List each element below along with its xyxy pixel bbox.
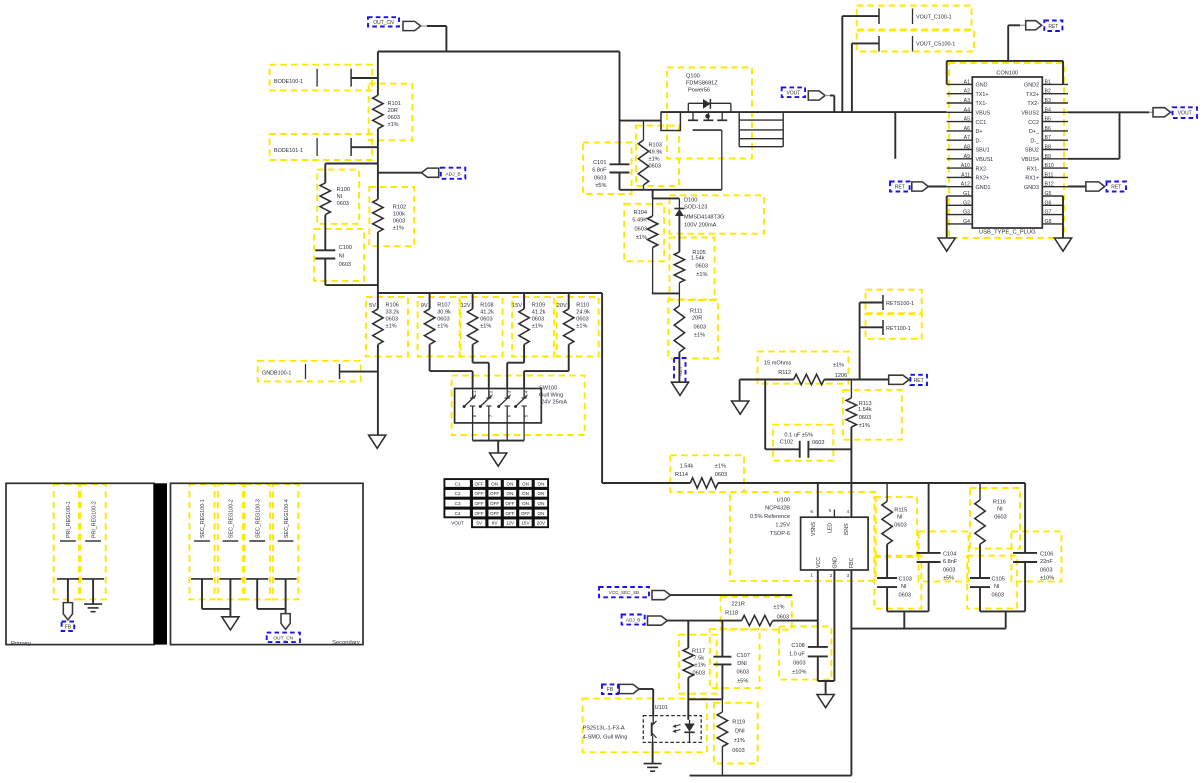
resistor R107 — [429, 293, 431, 309]
svg-text:0603: 0603 — [696, 264, 708, 270]
svg-text:R102: R102 — [393, 205, 406, 211]
svg-text:BODE101-1: BODE101-1 — [274, 148, 303, 154]
highlight box PRI_REG100-1 — [54, 484, 79, 599]
svg-text:C105: C105 — [992, 577, 1005, 583]
highlight box SEC_REG100-3 — [245, 484, 270, 599]
node label OUT_CN — [368, 17, 399, 26]
svg-text:ADJ_B: ADJ_B — [626, 618, 641, 623]
highlight box resistor R110 — [557, 297, 599, 357]
svg-text:0603: 0603 — [943, 568, 955, 574]
svg-text:0.5% Reference: 0.5% Reference — [750, 514, 790, 520]
svg-text:B8: B8 — [1045, 145, 1051, 151]
svg-text:B12: B12 — [1045, 182, 1054, 188]
highlight box resistor R107 — [418, 297, 460, 357]
svg-text:CON100: CON100 — [996, 71, 1018, 77]
svg-text:R110: R110 — [576, 303, 589, 309]
port OUT_CN — [403, 21, 421, 30]
resistor R106 — [377, 293, 379, 309]
highlight box resistor R101 — [369, 84, 413, 141]
node label VOUT mid — [782, 87, 805, 97]
svg-text:VBUS1: VBUS1 — [976, 157, 994, 163]
svg-text:ON: ON — [491, 481, 498, 486]
svg-text:±1%: ±1% — [833, 363, 844, 369]
wire ADJ branch to R117 — [687, 621, 689, 648]
ground GNDB — [369, 435, 386, 448]
svg-text:±1%: ±1% — [386, 324, 397, 330]
svg-text:DNI: DNI — [735, 729, 745, 735]
svg-text:ON: ON — [522, 481, 529, 486]
capacitor C107 — [713, 656, 731, 658]
svg-text:GND: GND — [833, 557, 839, 569]
svg-text:22nF: 22nF — [1040, 559, 1053, 565]
wire shield bracket top — [947, 60, 1063, 62]
wire R112 left to ground — [740, 379, 794, 381]
svg-text:0603: 0603 — [732, 748, 744, 754]
highlight box resistor R109 — [512, 297, 554, 357]
wire C101 bottom to gate node — [619, 173, 621, 190]
svg-text:0.1 uF ±5%: 0.1 uF ±5% — [784, 433, 813, 439]
node label RET mid — [910, 375, 927, 385]
svg-text:±1%: ±1% — [696, 272, 707, 278]
svg-text:ON: ON — [538, 501, 545, 506]
ground U100 — [817, 695, 834, 708]
svg-text:C3: C3 — [455, 501, 461, 506]
svg-text:±10%: ±10% — [1040, 576, 1054, 582]
svg-text:±1%: ±1% — [649, 157, 660, 163]
svg-text:RX1+: RX1+ — [1025, 176, 1039, 182]
svg-text:A3: A3 — [964, 98, 970, 104]
svg-text:R104: R104 — [634, 210, 647, 216]
svg-text:OFF: OFF — [475, 481, 484, 486]
ground CON100 left — [938, 238, 955, 251]
capacitor C102 — [764, 380, 766, 450]
wire R100 branch top — [325, 163, 378, 165]
wire gate node to R104/D100 — [652, 190, 654, 199]
port VOUT right — [1153, 108, 1171, 117]
svg-text:RET: RET — [1048, 24, 1058, 30]
svg-text:RET: RET — [678, 366, 683, 375]
svg-text:GND2: GND2 — [1024, 83, 1039, 89]
svg-text:VBUS: VBUS — [976, 111, 991, 117]
svg-text:Primary: Primary — [11, 641, 31, 647]
svg-text:A1: A1 — [964, 79, 970, 85]
wire top edge of OUT net — [378, 51, 620, 53]
wire left edge middle segment — [377, 129, 379, 200]
highlight box capacitor C102 — [773, 425, 834, 461]
transistor Q100 — [661, 112, 680, 130]
ground earth primary — [84, 603, 102, 605]
svg-text:9V: 9V — [421, 303, 428, 309]
wire VBUS tap to FET source — [620, 120, 662, 122]
svg-text:C4: C4 — [455, 511, 461, 516]
highlight box capacitor C107 — [710, 629, 760, 688]
svg-text:0603: 0603 — [386, 317, 398, 323]
svg-text:0603: 0603 — [899, 593, 911, 599]
svg-text:0603: 0603 — [812, 440, 824, 446]
svg-text:VCC: VCC — [816, 557, 822, 568]
diode D100 — [678, 198, 680, 208]
port ADJ bottom — [648, 616, 668, 625]
port ADJ — [378, 172, 422, 174]
svg-text:GNDB100-1: GNDB100-1 — [262, 371, 291, 377]
svg-text:C106: C106 — [1040, 552, 1053, 558]
resistor R111 — [678, 293, 680, 305]
svg-text:OFF: OFF — [475, 511, 484, 516]
svg-text:1.54k: 1.54k — [680, 464, 694, 470]
highlight box opto U101 — [583, 699, 707, 753]
svg-text:SEC_REG100-4: SEC_REG100-4 — [284, 499, 290, 538]
svg-text:0603: 0603 — [793, 661, 805, 667]
svg-text:6.8nF: 6.8nF — [943, 559, 958, 565]
svg-text:33.2k: 33.2k — [386, 310, 400, 316]
svg-text:VOUT_CS100-1: VOUT_CS100-1 — [916, 42, 955, 48]
svg-text:SBU1: SBU1 — [976, 148, 990, 154]
svg-text:B5: B5 — [1045, 117, 1051, 123]
svg-text:A2: A2 — [964, 89, 970, 95]
wire OUT_CN to top rail — [427, 25, 446, 27]
resistor R116 — [979, 483, 981, 500]
svg-text:1.0 uF: 1.0 uF — [789, 652, 805, 658]
wire FBC lower rail — [851, 628, 1005, 630]
wire B4 to VOUT port — [1068, 111, 1149, 113]
svg-text:0603: 0603 — [992, 593, 1004, 599]
port FB — [619, 684, 639, 693]
highlight box BODE100-1 — [270, 65, 373, 91]
svg-text:GND1: GND1 — [976, 185, 991, 191]
svg-text:12V: 12V — [461, 303, 471, 309]
svg-text:24V 25mA: 24V 25mA — [541, 400, 567, 406]
svg-text:PRI_REG100-2: PRI_REG100-2 — [91, 501, 97, 538]
svg-text:0603: 0603 — [393, 219, 405, 225]
svg-text:±1%: ±1% — [773, 605, 784, 611]
svg-text:U101: U101 — [655, 705, 668, 711]
svg-text:20R: 20R — [388, 108, 398, 114]
svg-text:±1%: ±1% — [480, 324, 491, 330]
highlight box SEC_REG100-2 — [218, 484, 243, 599]
port VOUT mid — [808, 91, 825, 100]
ground CON100 right — [1054, 238, 1071, 251]
svg-text:SW100: SW100 — [539, 386, 557, 392]
svg-text:D+_: D+_ — [1029, 129, 1040, 135]
transformer secondary box — [171, 483, 364, 644]
svg-text:OFF: OFF — [490, 491, 499, 496]
wire VBUS vertical at C101 — [619, 52, 621, 165]
svg-text:OFF: OFF — [475, 501, 484, 506]
resistor R102 — [373, 199, 383, 232]
node label RET top — [1044, 21, 1062, 32]
svg-text:1206: 1206 — [835, 373, 847, 379]
svg-text:15 mOhms: 15 mOhms — [764, 361, 792, 367]
wire opto emitter to earth — [652, 742, 654, 763]
svg-text:D+: D+ — [976, 129, 983, 135]
svg-text:TX1+: TX1+ — [976, 92, 989, 98]
svg-text:RETS100-1: RETS100-1 — [886, 301, 914, 307]
svg-text:NI: NI — [337, 194, 343, 200]
svg-text:SOD-123: SOD-123 — [684, 205, 707, 211]
svg-text:VOUT: VOUT — [786, 90, 800, 96]
svg-text:G2: G2 — [963, 200, 970, 206]
node label ADJ bottom — [622, 615, 645, 625]
svg-text:7.5k: 7.5k — [694, 656, 705, 662]
svg-text:R115: R115 — [894, 508, 907, 514]
capacitor C103 — [877, 577, 897, 579]
wire C100 branch bottom — [324, 259, 326, 286]
svg-text:FB: FB — [607, 687, 614, 693]
svg-text:0603: 0603 — [388, 115, 400, 121]
svg-text:A6: A6 — [964, 126, 970, 132]
svg-text:CC1: CC1 — [976, 120, 987, 126]
svg-text:PS2513L-1-F3-A: PS2513L-1-F3-A — [583, 726, 625, 732]
svg-text:5: 5 — [829, 508, 832, 513]
svg-text:41.2k: 41.2k — [532, 310, 546, 316]
svg-text:49.9k: 49.9k — [649, 150, 663, 156]
highlight box resistor R118 — [721, 597, 792, 630]
svg-text:15V: 15V — [521, 521, 530, 526]
svg-text:C100: C100 — [339, 245, 352, 251]
node label FB transformer — [62, 622, 75, 632]
svg-text:SBU2: SBU2 — [1025, 148, 1039, 154]
wire left edge upper segment — [377, 52, 379, 96]
svg-text:G3: G3 — [963, 210, 970, 216]
svg-text:A5: A5 — [964, 117, 970, 123]
node label VCC_SEC_SB — [599, 587, 649, 597]
wire drain ladder — [738, 112, 740, 147]
wire R108 to SW pin2 — [472, 345, 474, 363]
svg-text:G5: G5 — [1045, 191, 1052, 197]
svg-text:TX2-: TX2- — [1027, 101, 1039, 107]
svg-text:R108: R108 — [480, 303, 493, 309]
svg-text:0603: 0603 — [694, 325, 706, 331]
table switch settings — [444, 479, 470, 488]
wire GND column — [833, 570, 835, 681]
highlight box resistor R108 — [461, 297, 503, 357]
svg-text:±5%: ±5% — [943, 576, 954, 582]
svg-text:R100: R100 — [337, 187, 350, 193]
highlight box SEC_REG100-1 — [189, 484, 214, 599]
svg-text:A11: A11 — [961, 172, 970, 178]
svg-text:C107: C107 — [737, 653, 750, 659]
highlight box diode D100 — [669, 195, 764, 233]
svg-text:RX1-: RX1- — [1027, 166, 1039, 172]
svg-text:12V: 12V — [506, 521, 515, 526]
opto LED — [689, 720, 691, 724]
highlight box capacitor C104 — [919, 531, 969, 581]
highlight box resistor R113 — [843, 390, 902, 440]
svg-text:TSOP-6: TSOP-6 — [770, 531, 790, 537]
svg-text:B9: B9 — [1045, 154, 1051, 160]
wire R106 to ground — [377, 345, 379, 436]
ground earth U101 — [644, 763, 662, 765]
svg-text:R106: R106 — [386, 303, 399, 309]
svg-text:±1%: ±1% — [695, 663, 706, 669]
svg-text:G4: G4 — [963, 219, 970, 225]
svg-text:R117: R117 — [692, 649, 705, 655]
switch SW100 — [455, 389, 542, 423]
wire R117 to opto LED — [687, 678, 689, 720]
highlight box PRI_REG100-2 — [81, 484, 106, 599]
svg-text:9V: 9V — [492, 521, 499, 526]
svg-text:RET: RET — [1111, 185, 1121, 191]
resistor R114 — [690, 478, 718, 488]
wire bottom bus of OUT net — [378, 292, 602, 294]
wire R118 to VCC pin — [773, 620, 818, 622]
test stub BODE101-1 — [316, 138, 318, 156]
svg-text:OFF: OFF — [521, 511, 530, 516]
highlight box resistor R106 — [366, 297, 408, 357]
svg-text:ON: ON — [538, 511, 545, 516]
svg-text:FB: FB — [65, 624, 72, 630]
svg-text:±5%: ±5% — [737, 679, 748, 685]
node label OUT_CN transformer — [267, 633, 300, 643]
node label RET left — [890, 182, 910, 192]
svg-text:1.25V: 1.25V — [775, 523, 790, 529]
wire R116 to C105 — [979, 544, 981, 578]
svg-text:C102: C102 — [780, 440, 793, 446]
svg-text:VBUS2: VBUS2 — [1021, 111, 1039, 117]
svg-text:RX2-: RX2- — [976, 166, 988, 172]
test stub RETS100-1 — [859, 303, 861, 380]
highlight box resistor R100 — [317, 170, 359, 224]
resistor R115 — [886, 483, 888, 501]
wire VCC column — [817, 570, 819, 647]
svg-text:A10: A10 — [961, 163, 970, 169]
wire C108 bottom to ground — [817, 656, 819, 681]
svg-text:G1: G1 — [963, 191, 970, 197]
wire R100 to C100 — [324, 215, 326, 251]
highlight box resistor R117 — [679, 635, 717, 694]
svg-text:0603: 0603 — [337, 201, 349, 207]
svg-text:A4: A4 — [964, 107, 970, 113]
svg-text:6.8nF: 6.8nF — [592, 168, 607, 174]
highlight box resistor R104 — [624, 204, 664, 261]
ground R112 — [732, 401, 749, 414]
wire R115 to C103 — [886, 544, 888, 578]
port RET right — [1068, 186, 1086, 188]
svg-text:VOUT_C100-1: VOUT_C100-1 — [916, 14, 952, 20]
port RET top — [1007, 25, 1009, 61]
svg-text:A8: A8 — [964, 145, 970, 151]
highlight box capacitor C108 — [779, 627, 831, 680]
svg-text:G6: G6 — [1045, 200, 1052, 206]
svg-text:NCP432B: NCP432B — [765, 506, 790, 512]
wire FBC column — [850, 570, 852, 776]
highlight box resistor R112 — [758, 352, 849, 384]
svg-text:TX2+: TX2+ — [1026, 92, 1039, 98]
svg-text:RET: RET — [914, 378, 924, 384]
capacitor C105 — [970, 577, 990, 579]
svg-text:221R: 221R — [732, 602, 745, 608]
svg-text:0603: 0603 — [649, 164, 661, 170]
highlight box connector CON100 — [949, 63, 1064, 238]
highlight box resistor R114 — [670, 455, 744, 492]
capacitor C100 — [315, 249, 335, 251]
svg-text:NI: NI — [994, 584, 1000, 590]
highlight box switch SW100 — [452, 376, 585, 435]
svg-text:C108: C108 — [791, 643, 804, 649]
svg-text:100V 200mA: 100V 200mA — [684, 223, 717, 229]
svg-text:ON: ON — [538, 491, 545, 496]
svg-text:0603: 0603 — [635, 227, 647, 233]
svg-text:R119: R119 — [732, 720, 745, 726]
highlight box resistor R111 — [668, 299, 718, 358]
highlight box capacitor C100 — [314, 229, 364, 281]
svg-text:ON: ON — [507, 481, 514, 486]
ground secondary — [222, 617, 239, 630]
svg-text:OFF: OFF — [505, 511, 514, 516]
svg-text:VSNS: VSNS — [811, 521, 817, 536]
svg-text:C3: C3 — [507, 390, 512, 396]
svg-text:OUT_CN: OUT_CN — [373, 20, 394, 26]
highlight box capacitor C106 — [1011, 531, 1061, 581]
wire C105/C106 bottom rail — [980, 610, 1025, 612]
test stub RET100-1 — [860, 326, 883, 328]
svg-text:±1%: ±1% — [576, 324, 587, 330]
svg-text:Q100: Q100 — [686, 74, 700, 80]
resistor R109 — [523, 293, 525, 309]
test stub GNDB100-1 — [305, 364, 307, 379]
wire G-pin bracket left — [946, 196, 948, 224]
svg-text:R112: R112 — [778, 370, 791, 376]
svg-text:DNI: DNI — [737, 661, 747, 667]
capacitor C101 — [610, 163, 630, 165]
svg-text:0603: 0603 — [594, 176, 606, 182]
wire ADJ to R118 — [667, 620, 741, 622]
wire VBUS A9 loop left — [894, 112, 896, 159]
svg-text:GND: GND — [976, 83, 988, 89]
svg-text:1.54k: 1.54k — [691, 256, 705, 262]
resistor R119 — [721, 699, 723, 712]
svg-text:±1%: ±1% — [715, 464, 726, 470]
wire R111 to ground — [678, 352, 680, 382]
svg-text:0603: 0603 — [693, 671, 705, 677]
highlight box op-amp U100 — [730, 492, 876, 581]
wire bus down to VSNS rail — [601, 293, 603, 483]
resistor R100 — [320, 183, 330, 215]
svg-text:6: 6 — [810, 509, 813, 514]
svg-text:0603: 0603 — [715, 472, 727, 478]
svg-text:LED: LED — [828, 523, 834, 533]
svg-text:ON: ON — [522, 491, 529, 496]
svg-text:Gull Wing: Gull Wing — [539, 393, 563, 399]
wire VCC_SEC_SB — [670, 594, 792, 596]
svg-text:0603: 0603 — [576, 317, 588, 323]
svg-text:0603: 0603 — [1040, 568, 1052, 574]
svg-text:NI: NI — [901, 584, 907, 590]
wire R107 to SW pin1 — [429, 345, 431, 372]
svg-text:0603: 0603 — [339, 262, 351, 268]
test stub BODE100-1 — [316, 69, 318, 87]
pin rows CON100 — [947, 83, 973, 85]
ground R111 — [671, 382, 688, 395]
svg-text:C1: C1 — [472, 390, 477, 396]
svg-text:NI: NI — [997, 507, 1003, 513]
highlight box capacitor C101 — [583, 143, 632, 195]
opto transistor — [652, 717, 654, 724]
svg-text:SEC_REG100-2: SEC_REG100-2 — [229, 499, 235, 538]
svg-text:4-SMD, Gull Wing: 4-SMD, Gull Wing — [583, 735, 628, 741]
svg-text:R116: R116 — [993, 500, 1006, 506]
svg-text:0603: 0603 — [437, 317, 449, 323]
resistor R110 — [568, 293, 570, 309]
svg-text:U100: U100 — [777, 498, 790, 504]
svg-text:5V: 5V — [369, 303, 376, 309]
svg-text:R101: R101 — [388, 101, 401, 107]
ground SW100 — [490, 453, 507, 466]
port VCC_SEC_SB — [652, 591, 670, 600]
svg-text:A9: A9 — [964, 154, 970, 160]
svg-text:D-: D- — [976, 138, 982, 144]
svg-text:VOUT: VOUT — [451, 521, 464, 526]
